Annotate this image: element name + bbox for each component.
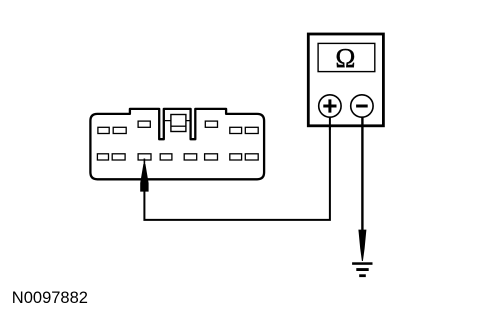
pin T2 [113,127,126,133]
connector J1 body outline [90,109,264,179]
svg-text:N0097882: N0097882 [12,289,88,307]
plus sign [323,99,336,112]
pin B3 (probed pin) [138,154,151,160]
ohmmeter U1 case [308,34,383,126]
ground G1 bar 1 [352,262,372,265]
svg-text:Ω: Ω [335,43,355,73]
pin B1 [97,154,108,160]
probe P2 body (to ground) [358,230,366,261]
wire from probe P1 to ohmmeter positive lead [144,117,330,220]
positive lead stub through case [329,117,331,131]
pin B2 [112,154,125,160]
connector latch inner line [171,125,186,127]
ohmmeter display [318,43,375,71]
ohmmeter negative terminal [351,95,373,117]
pin B7 [230,154,242,160]
pin T5 [230,127,242,133]
ohmmeter positive terminal [319,95,341,117]
pin B6 [205,154,218,160]
wire from ohmmeter negative lead to ground probe [361,117,363,230]
pin B8 [245,154,258,160]
minus sign [356,105,368,108]
probe P1 body [140,164,148,192]
ground G1 bar 3 [359,274,366,277]
pin T4 [205,121,217,127]
pin T3 [138,121,150,127]
pin B5 [184,154,197,160]
pin T6 [245,127,258,133]
pin B4 [160,154,172,160]
connector latch box [171,115,186,132]
probe P1 needle at pin B3 [144,159,146,167]
ground G1 bar 2 [356,268,368,271]
connector latch cross line [165,120,190,122]
pin T1 [98,127,109,133]
